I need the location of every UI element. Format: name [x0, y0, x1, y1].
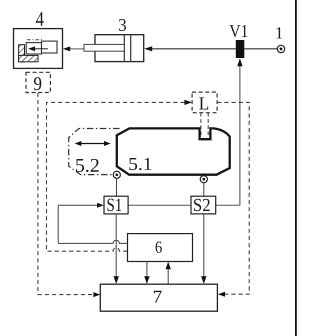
- arrow inside slider: [34, 48, 48, 50]
- wire S1 down to box 7 with arrow: [115, 214, 117, 278]
- wire S2 bus up to V1 with arrow: [239, 66, 241, 206]
- hatched block horizontal part: [19, 55, 38, 61]
- box L (dashed): [192, 92, 217, 113]
- port 1 symbol: [277, 45, 284, 52]
- label 3: [119, 19, 126, 31]
- box 9 (dashed): [26, 72, 50, 92]
- wire V1 to port 1: [244, 48, 277, 50]
- wire 7 up to 6 with arrow: [167, 269, 169, 284]
- wire 6 down to 7 with arrow: [146, 262, 148, 278]
- wire feedback loop 6 to S1 with arrow: [58, 204, 97, 206]
- dashed wire 9 to box 7: [38, 93, 94, 295]
- box 7: [100, 284, 217, 311]
- valve V1: [236, 40, 245, 58]
- label 4: [36, 12, 44, 26]
- cylinder 3 body: [95, 35, 144, 62]
- wire node A to S1: [116, 179, 118, 197]
- slider right rect: [42, 41, 58, 53]
- wire node B to S2: [203, 183, 205, 196]
- dashed wire L to box 7 (via right side): [217, 102, 249, 294]
- box 6: [128, 234, 193, 262]
- label V1: [230, 25, 248, 37]
- double arrow (extension direction): [80, 143, 106, 145]
- dashed wire box 6 to L (via left side) with hop over S1 line: [47, 102, 185, 251]
- bus wire S1 to S2: [128, 204, 191, 206]
- sensor node A (left): [113, 171, 120, 178]
- centerline dash above slider: [27, 39, 43, 41]
- page column border line (right edge): [295, 0, 297, 336]
- box 4 (spindle drive unit): [14, 29, 63, 69]
- wire rod to box 4 with arrow: [70, 48, 85, 50]
- piston rod of 3: [84, 44, 124, 51]
- wire S2 down to box 7 with arrow: [203, 214, 205, 278]
- phantom extension 5.2 (dash-dot outline): [69, 129, 120, 175]
- label 1: [277, 27, 283, 38]
- sensor node B (right): [200, 176, 207, 183]
- label 5.1: [129, 158, 151, 170]
- slider left rect: [26, 43, 41, 54]
- piston lines in cylinder 3: [123, 35, 125, 62]
- tank 5.1 outline: [117, 128, 230, 174]
- label 5.2: [76, 159, 99, 172]
- box S2: [191, 196, 216, 214]
- wire V1 to cylinder 3 with arrow: [152, 48, 236, 50]
- dashed filler pipe from L into tank notch: [200, 113, 202, 137]
- box S1: [104, 196, 128, 214]
- hatched block vertical part: [19, 45, 25, 62]
- bus wire S2 to V1 riser: [216, 204, 240, 206]
